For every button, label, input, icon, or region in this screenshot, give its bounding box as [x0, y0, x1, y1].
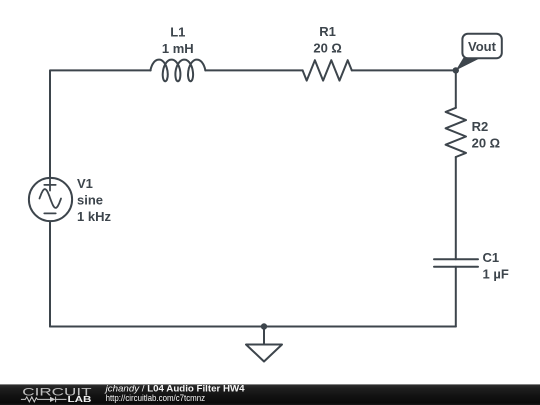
svg-text:1 µF: 1 µF: [483, 267, 509, 282]
wire left (bottom to V1): [49, 221, 51, 327]
capacitor C1: [434, 259, 478, 267]
CircuitLab logo CIRCUIT text: [22, 386, 91, 398]
svg-text:C1: C1: [483, 250, 500, 265]
resistor R1: [303, 60, 352, 80]
value 1 mH: [162, 41, 194, 56]
label L1: [170, 24, 185, 39]
wire (node Vout to R2): [455, 70, 457, 107]
label R1: [319, 24, 336, 39]
label R2: [472, 119, 489, 134]
junction dot at node Vout: [453, 67, 459, 73]
wire (R2 to C1): [455, 157, 457, 259]
svg-text:L1: L1: [170, 24, 185, 39]
ground symbol: [246, 345, 282, 362]
ground stub: [263, 327, 265, 345]
Vout label: [468, 39, 497, 54]
label V1: [77, 176, 93, 191]
inductor L1: [150, 60, 205, 82]
label C1: [483, 250, 500, 265]
wire (L1 to R1): [206, 69, 303, 71]
Vout flag box: [462, 34, 501, 59]
wire (C1 to bottom): [455, 267, 457, 327]
CircuitLab logo resistor squiggle and diode: [21, 397, 67, 403]
svg-text:R2: R2: [472, 119, 489, 134]
wire top (V1 to L1): [50, 70, 151, 178]
V1 plus sign: [44, 179, 55, 190]
footer title line: [105, 384, 245, 394]
resistor R2: [446, 108, 466, 157]
svg-text:1 kHz: 1 kHz: [77, 209, 111, 224]
value 1 uF: [483, 267, 509, 282]
svg-text:LAB: LAB: [68, 394, 92, 404]
footer bar: [0, 384, 540, 405]
svg-text:20 Ω: 20 Ω: [472, 136, 501, 151]
svg-text:R1: R1: [319, 24, 336, 39]
CircuitLab logo LAB text: [68, 394, 92, 404]
value 20 ohm (R1): [313, 40, 342, 55]
svg-text:http://circuitlab.com/c7tcmnz: http://circuitlab.com/c7tcmnz: [106, 393, 206, 403]
wire bottom: [50, 326, 456, 328]
Vout flag pointer: [456, 58, 480, 71]
V1 minus sign: [44, 212, 55, 214]
footer url line: [106, 393, 206, 403]
voltage source V1 circle: [29, 178, 72, 221]
wire (R1 to node Vout): [352, 69, 456, 71]
junction dot at ground: [261, 323, 267, 329]
svg-text:sine: sine: [77, 192, 103, 207]
value 1 kHz: [77, 209, 111, 224]
value 20 ohm (R2): [472, 136, 501, 151]
svg-text:1 mH: 1 mH: [162, 41, 194, 56]
value sine: [77, 192, 103, 207]
svg-text:20 Ω: 20 Ω: [313, 40, 342, 55]
svg-text:Vout: Vout: [468, 39, 497, 54]
V1 sine waveform: [40, 189, 62, 208]
svg-text:V1: V1: [77, 176, 93, 191]
